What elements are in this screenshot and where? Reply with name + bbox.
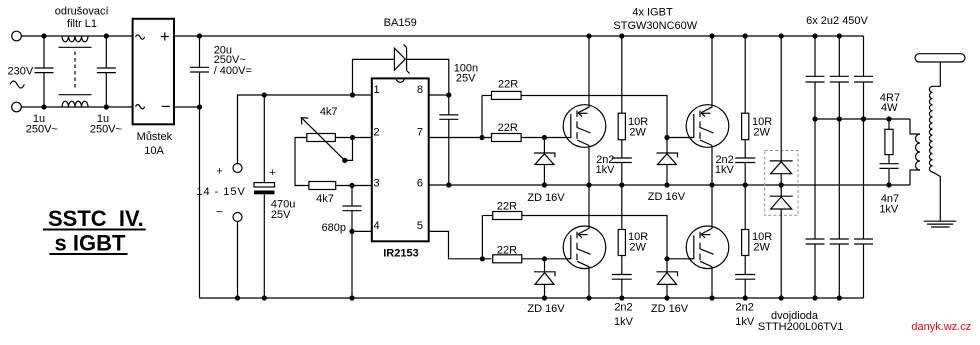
svg-text:1kV: 1kV xyxy=(715,164,735,176)
svg-text:6: 6 xyxy=(417,178,423,190)
svg-text:odrušovací: odrušovací xyxy=(55,5,109,17)
node dot mid c12 xyxy=(837,116,842,121)
svg-text:22R: 22R xyxy=(497,201,517,213)
svg-text:1kV: 1kV xyxy=(735,316,755,328)
svg-text:250V~: 250V~ xyxy=(26,124,58,136)
node dot snubber4 bottom xyxy=(743,295,748,300)
svg-text:ZD 16V: ZD 16V xyxy=(651,303,689,315)
wire plus terminal to Vcc line xyxy=(238,95,372,164)
node dot ZD3 bottom on VS xyxy=(664,182,669,187)
svg-text:250V~: 250V~ xyxy=(90,124,122,136)
svg-text:IR2153: IR2153 xyxy=(383,248,418,260)
bridge symbol minus xyxy=(162,105,170,107)
node dot pin4 ground xyxy=(349,295,354,300)
terminal -14-15V xyxy=(233,213,242,222)
inductor L1 top winding xyxy=(62,36,88,42)
node dot top C2 xyxy=(104,33,109,38)
node dot BA159 anode tap xyxy=(350,92,355,97)
node dot Q1 collector on rail xyxy=(586,33,591,38)
symbol AC tilde xyxy=(10,81,24,88)
svg-text:–: – xyxy=(216,206,223,218)
node dot ZD1 bottom on VS xyxy=(542,182,547,187)
wire ground bus vertical from bridge minus xyxy=(199,107,201,298)
node dot Q1 emitter on VS xyxy=(586,182,591,187)
zener ZD4 16V xyxy=(657,259,678,298)
node dot bottom C1 xyxy=(41,104,46,109)
wire gate line C to Q4 xyxy=(522,216,694,259)
transistor Q4 IGBT xyxy=(686,185,729,298)
wire gate line D to Q2 xyxy=(522,258,566,260)
wire wiper to pin2 xyxy=(345,138,353,161)
node dot pin8 xyxy=(446,92,451,97)
node dot snubber2 bottom xyxy=(619,295,624,300)
wire pin 8 stub xyxy=(429,94,449,96)
bridge symbol ~ bottom xyxy=(136,105,145,109)
node dot snubber3 top xyxy=(743,33,748,38)
wire BA159 riser xyxy=(353,59,395,95)
svg-text:1kV: 1kV xyxy=(614,316,634,328)
svg-text:2: 2 xyxy=(374,127,380,139)
svg-text:ZD 16V: ZD 16V xyxy=(527,192,565,204)
wire pin 3 line xyxy=(336,185,372,187)
svg-text:filtr L1: filtr L1 xyxy=(67,18,97,30)
svg-text:3: 3 xyxy=(374,178,380,190)
node dot pin4 xyxy=(349,229,354,234)
capacitor C5 100n 25V bootstrap xyxy=(439,95,458,185)
capacitor C15 2u2 bottom column2 xyxy=(830,119,849,298)
resistor R2 4k7 body xyxy=(309,182,336,190)
svg-text:1: 1 xyxy=(374,84,380,96)
svg-text:5: 5 xyxy=(417,220,423,232)
node dot c15 bottom xyxy=(837,295,842,300)
potentiometer R1 wiper arrow xyxy=(302,118,345,161)
wire pin7 branch up xyxy=(481,96,483,138)
node dot 20u bottom xyxy=(197,104,202,109)
svg-text:/ 400V=: / 400V= xyxy=(214,65,252,77)
svg-text:4W: 4W xyxy=(881,102,898,114)
svg-text:2W: 2W xyxy=(753,242,770,254)
svg-text:1kV: 1kV xyxy=(596,164,616,176)
node dot mid c11 xyxy=(812,116,817,121)
svg-text:4k7: 4k7 xyxy=(316,193,334,205)
svg-text:SSTC IV.: SSTC IV. xyxy=(48,206,144,231)
node dot wiper xyxy=(342,158,347,163)
bridge symbol + xyxy=(161,33,169,41)
svg-text:s IGBT: s IGBT xyxy=(55,231,126,256)
topload electrode xyxy=(915,54,965,62)
wire gate line A to Q3 xyxy=(521,96,694,138)
node dot 20u top xyxy=(197,33,202,38)
transistor Q2 IGBT xyxy=(563,185,606,298)
svg-text:25V: 25V xyxy=(456,73,476,85)
capacitor C8 2n2 1kV snubber lower-left xyxy=(612,275,632,299)
node dot minus terminal on bus xyxy=(235,295,240,300)
node dot dvojdioda bottom bus xyxy=(779,295,784,300)
wire pin4 node to ground bus xyxy=(351,231,353,298)
node dot dvojdioda mid on VS xyxy=(779,182,784,187)
svg-text:2W: 2W xyxy=(629,242,646,254)
wire pin 4 stub xyxy=(352,230,372,232)
inductor L1 coupling dashed line xyxy=(74,52,76,90)
svg-text:4x IGBT: 4x IGBT xyxy=(632,7,673,19)
svg-text:680p: 680p xyxy=(322,222,346,234)
wire dvojdioda column top xyxy=(780,36,782,161)
svg-text:BA159: BA159 xyxy=(384,17,417,29)
node dot snubber1 bottom xyxy=(619,182,624,187)
inductor secondary winding xyxy=(929,86,932,172)
node dot bottom C2 xyxy=(104,104,109,109)
node dot Q2 emitter on bus xyxy=(586,295,591,300)
svg-text:2n2: 2n2 xyxy=(614,302,632,314)
node dot 100n bottom on VS line xyxy=(446,182,451,187)
capacitor C6 680p xyxy=(343,186,362,232)
capacitor C1 1u 250V~ xyxy=(35,36,54,107)
zener ZD2 16V xyxy=(534,259,555,298)
node dot snubber1 top xyxy=(619,33,624,38)
svg-text:2W: 2W xyxy=(629,126,646,138)
diode D1 BA159 xyxy=(394,45,409,74)
node dot pin7 junction xyxy=(479,135,484,140)
transistor Q1 IGBT xyxy=(563,36,606,185)
wire capacitor mid line xyxy=(815,118,910,120)
svg-text:4: 4 xyxy=(374,220,380,232)
wire topload stem xyxy=(933,62,941,86)
diode D2a upper xyxy=(770,161,793,185)
wire gate line B to Q1 xyxy=(521,137,566,139)
capacitor C2 1u 250V~ xyxy=(97,36,116,107)
capacitor C4 470u 25V electrolytic xyxy=(254,95,275,298)
wire primary bottom to VS xyxy=(910,170,920,185)
node dot 470u bottom xyxy=(262,295,267,300)
op-amp U1 IR2153 body xyxy=(372,78,429,241)
node dot pin5 junction xyxy=(480,256,485,261)
capacitor C17 4n7 1kV xyxy=(880,164,899,185)
terminal J2 (mains bottom) xyxy=(12,102,22,112)
wire mains top xyxy=(21,35,132,37)
node dot ZD1 top xyxy=(542,135,547,140)
wire ground bus bottom xyxy=(200,297,864,299)
node dot 470u top xyxy=(262,92,267,97)
node dot mid c13 xyxy=(861,116,866,121)
svg-text:10A: 10A xyxy=(144,145,164,157)
wire VS line (half-bridge output) xyxy=(429,184,910,186)
wire BA159 cathode to pin8 node xyxy=(407,59,449,95)
resistor R11 4R7 4W xyxy=(885,119,893,164)
wire primary feed from cap midpoint xyxy=(910,119,916,134)
svg-text:STGW30NC60W: STGW30NC60W xyxy=(613,20,697,32)
node dot ZD2 top xyxy=(542,256,547,261)
svg-text:danyk.wz.cz: danyk.wz.cz xyxy=(911,321,971,333)
resistor R9 10R 2W snubber upper-right xyxy=(742,36,749,158)
zener ZD3 16V xyxy=(657,138,678,186)
capacitor C13 2u2 top column3 xyxy=(854,36,873,119)
ground symbol xyxy=(924,221,956,227)
wire mains bottom xyxy=(21,106,132,108)
bridge rectifier box Mustek 10A xyxy=(133,19,174,125)
node dot c11 top xyxy=(812,33,817,38)
diode D2b lower xyxy=(770,185,793,298)
wire gate line A start xyxy=(482,95,492,97)
wire gate line C start xyxy=(482,215,492,217)
svg-text:25V: 25V xyxy=(271,209,291,221)
node dot pin3 xyxy=(349,183,354,188)
potentiometer R1 4k7 body xyxy=(307,134,336,142)
svg-text:22R: 22R xyxy=(498,79,518,91)
dual diode D2 dashed module box xyxy=(765,151,798,216)
node dot Q3 collector on rail xyxy=(709,33,714,38)
resistor R6 22R body xyxy=(493,255,522,263)
resistor R7 10R 2W snubber upper-left xyxy=(618,36,625,158)
zener ZD1 16V xyxy=(534,138,555,186)
svg-text:ZD 16V: ZD 16V xyxy=(648,191,686,203)
svg-text:ZD 16V: ZD 16V xyxy=(527,303,565,315)
capacitor C10 2n2 1kV snubber lower-right xyxy=(735,275,755,299)
node dot top C1 xyxy=(41,33,46,38)
node dot c14 bottom xyxy=(812,295,817,300)
svg-text:22R: 22R xyxy=(497,244,517,256)
node dot dvojdioda top rail xyxy=(779,33,784,38)
inductor primary winding xyxy=(916,134,921,170)
bridge symbol ~ top xyxy=(136,35,145,39)
wire pin 7 stub xyxy=(429,137,492,139)
node dot Q4 emitter on bus xyxy=(709,295,714,300)
wire primary top nub xyxy=(916,133,921,135)
capacitor C9 2n2 1kV snubber upper-right xyxy=(735,158,755,185)
inductor L1 bottom winding xyxy=(62,101,88,107)
wire pin 2 line xyxy=(335,137,371,139)
capacitor C14 2u2 bottom column1 xyxy=(806,119,825,298)
wire bridge plus output / top rail xyxy=(174,35,864,37)
node dot c12 top xyxy=(837,33,842,38)
node dot ZD3 top xyxy=(664,135,669,140)
svg-text:2n2: 2n2 xyxy=(736,302,754,314)
capacitor C12 2u2 top column2 xyxy=(830,36,849,119)
svg-text:+: + xyxy=(269,167,275,179)
inductor L1 top core bar xyxy=(59,46,92,48)
node dot ZD4 bottom on bus xyxy=(664,295,669,300)
svg-text:14 - 15V: 14 - 15V xyxy=(196,186,245,198)
resistor R10 10R 2W snubber lower-right xyxy=(742,185,749,275)
svg-text:7: 7 xyxy=(417,127,423,139)
capacitor C7 2n2 1kV snubber upper-left xyxy=(612,158,632,185)
wire minus terminal to ground bus xyxy=(237,222,239,299)
wire pot left to R2 left xyxy=(295,138,309,186)
wire bridge minus output xyxy=(174,106,200,108)
resistor R5 22R body xyxy=(493,212,522,220)
svg-text:Můstek: Můstek xyxy=(137,131,173,143)
node dot pin2 xyxy=(350,135,355,140)
capacitor C3 20u xyxy=(190,36,209,107)
node dot 4n7 on VS xyxy=(886,182,891,187)
transistor Q3 IGBT xyxy=(686,36,729,185)
capacitor C11 2u2 top column1 xyxy=(806,36,825,119)
svg-text:+: + xyxy=(216,166,222,178)
node dot snubber3 bottom xyxy=(743,182,748,187)
svg-text:6x 2u2 450V: 6x 2u2 450V xyxy=(806,15,868,27)
U1 notch xyxy=(396,78,404,82)
svg-text:4k7: 4k7 xyxy=(320,106,338,118)
resistor R8 10R 2W snubber lower-left xyxy=(618,185,625,275)
node dot ZD2 bottom on bus xyxy=(542,295,547,300)
wire secondary bottom to ground xyxy=(933,172,941,221)
node dot mid 4R7 xyxy=(886,116,891,121)
capacitor C16 2u2 bottom column3 xyxy=(854,119,873,298)
terminal +14-15V xyxy=(233,164,242,173)
wire pin 5 stub jog xyxy=(429,231,492,258)
svg-text:8: 8 xyxy=(417,84,423,96)
svg-text:22R: 22R xyxy=(498,122,518,134)
resistor R3 22R body xyxy=(492,91,522,99)
resistor R4 22R body xyxy=(492,134,522,142)
inductor L1 bottom core bar xyxy=(59,94,92,96)
terminal J1 (mains top) xyxy=(12,31,22,41)
node dot ZD4 top xyxy=(664,256,669,261)
wire pin5 branch up xyxy=(481,216,483,259)
svg-text:2W: 2W xyxy=(753,126,770,138)
svg-text:1kV: 1kV xyxy=(879,204,899,216)
node dot Q3 emitter on VS xyxy=(709,182,714,187)
svg-text:STTH200L06TV1: STTH200L06TV1 xyxy=(758,321,844,333)
svg-text:230V: 230V xyxy=(8,66,34,78)
